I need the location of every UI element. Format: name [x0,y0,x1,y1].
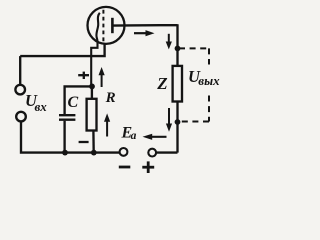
label U_vyh [188,67,220,88]
wire terminal to grid wire [19,56,21,84]
U-out dashed measurement bracket [179,48,209,121]
plus sign at cathode RC [78,72,89,79]
wire capacitor to bottom rail [63,121,65,153]
capacitor C [59,115,75,120]
cathode node junction dot [89,84,95,90]
svg-text:вх: вх [35,99,48,114]
plus sign under + terminal [142,161,154,173]
tube grid (dashed) [102,10,104,44]
svg-text:a: a [131,130,137,142]
resistor R box [87,99,97,131]
tube anode plate [111,18,114,33]
node A (top of Z / U-out tap) [175,46,181,52]
bottom rail wire [21,122,120,153]
terminal + of Ea [148,149,156,157]
current arrow up (at cathode node) [99,67,105,87]
input terminal bottom [16,112,26,122]
minus sign under - terminal [119,166,131,169]
current arrow down (below Z) [166,108,172,132]
svg-text:R: R [105,90,116,106]
minus sign at cathode RC bottom [79,141,89,143]
svg-text:Z: Z [156,74,167,93]
terminal - of Ea [120,148,128,156]
bottom right wire from + terminal up the rail [156,151,177,153]
wire resistor to bottom rail [92,131,95,153]
impedance Z box [173,66,182,102]
label U_vh [25,91,47,114]
wire cathode node to resistor [91,86,93,98]
input terminal top [15,85,25,95]
current arrow down (above Z) [166,34,172,50]
grid lead wire [20,44,104,57]
node B (bottom of Z / U-out tap) [175,119,181,125]
right rail wire [176,24,178,152]
wire cathode node to capacitor [65,86,92,114]
svg-text:C: C [68,94,79,111]
label Ea [121,124,137,142]
node capacitor-rail [62,150,68,156]
tube cathode (S-curve) with lead down to cathode node [91,13,100,87]
current arrow right (on anode wire) [134,30,155,36]
anode wire to right rail [112,24,177,27]
tube V envelope [88,7,125,44]
battery arrow Ea (pointing left) [143,134,167,140]
svg-text:вых: вых [198,73,220,88]
current arrow up (beside R) [104,113,110,136]
paper background [0,0,230,185]
node resistor-rail [91,150,97,156]
